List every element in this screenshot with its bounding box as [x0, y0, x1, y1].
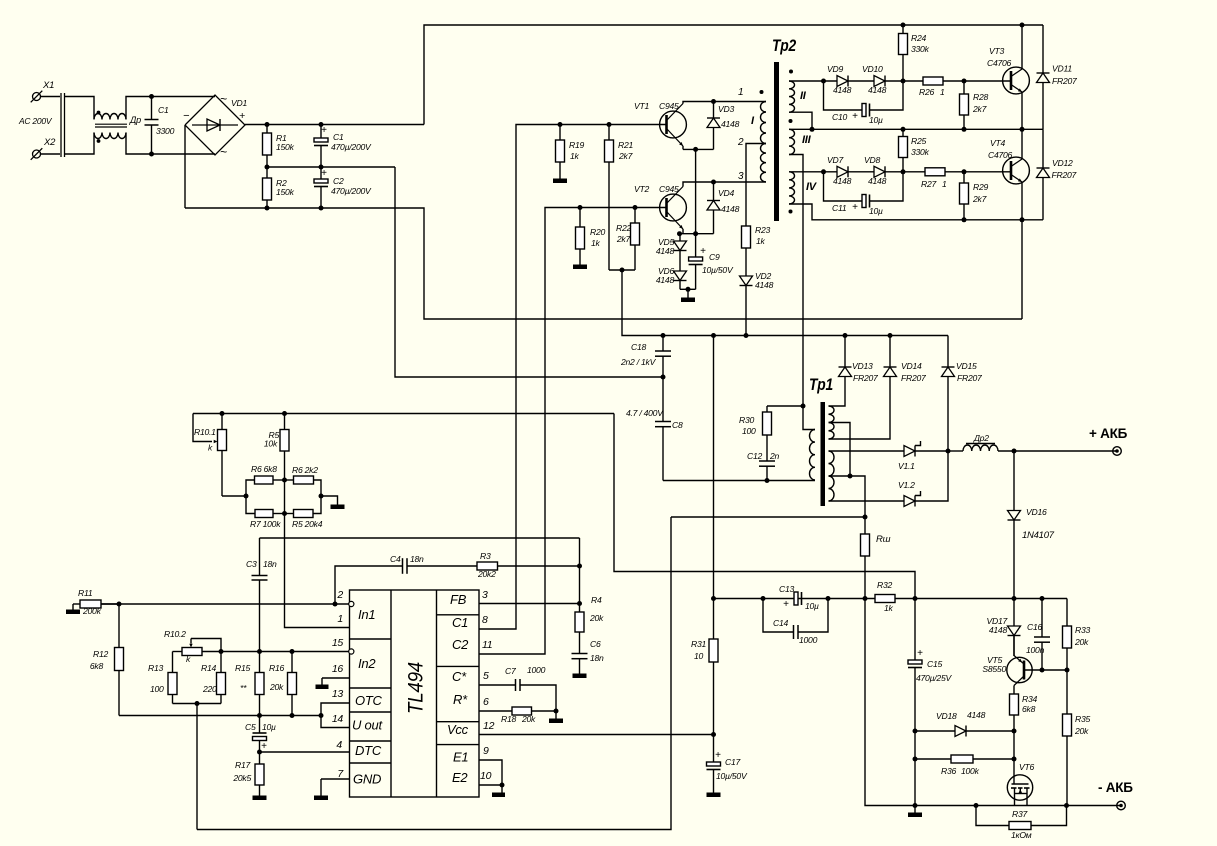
wire divider right to ground — [321, 496, 338, 505]
resistor R6 6k8 — [246, 464, 285, 496]
ground E1 E2 — [492, 793, 505, 798]
wire FB node chain — [577, 538, 582, 606]
svg-text:FB: FB — [450, 592, 467, 607]
svg-text:20k5: 20k5 — [232, 773, 251, 783]
wire +310V loop to top rail — [424, 23, 1043, 125]
svg-text:TL494: TL494 — [404, 662, 428, 714]
svg-text:20k: 20k — [1074, 637, 1089, 647]
svg-text:470µ/200V: 470µ/200V — [331, 186, 372, 196]
resistor R24 330k — [899, 25, 930, 81]
svg-text:FR207: FR207 — [957, 373, 983, 383]
resistor R35 20k — [1063, 670, 1091, 806]
svg-text:VD11: VD11 — [1052, 64, 1072, 74]
svg-text:15: 15 — [332, 637, 344, 649]
svg-text:20k: 20k — [589, 613, 604, 623]
svg-text:100: 100 — [150, 684, 164, 694]
svg-text:2k7: 2k7 — [972, 104, 988, 114]
svg-text:R14: R14 — [201, 663, 216, 673]
svg-text:R*: R* — [453, 692, 468, 707]
svg-text:Др: Др — [129, 115, 141, 125]
capacitor C4 18n — [335, 554, 477, 604]
diode VD6 4148 — [656, 266, 687, 289]
wire VT5 base — [1024, 668, 1070, 673]
wire VD10 to R26 — [885, 79, 923, 84]
ground pin16 — [316, 685, 329, 690]
svg-text:C11: C11 — [832, 203, 847, 213]
wire VT5 emitter — [1013, 636, 1015, 657]
wire bridge plus rail +310V — [245, 122, 424, 127]
wire pin3 FB line — [479, 603, 580, 605]
potentiometer R10.2 — [164, 629, 221, 664]
svg-text:V1.2: V1.2 — [898, 480, 915, 490]
svg-text:4: 4 — [336, 739, 342, 751]
svg-text:200k: 200k — [82, 606, 102, 616]
resistor R37 1kOm — [976, 806, 1067, 841]
wire R21 R22 junction to C18 rail — [609, 268, 948, 339]
svg-text:14: 14 — [332, 713, 344, 725]
svg-text:E1: E1 — [453, 750, 468, 765]
wire divider top rail — [193, 411, 614, 416]
svg-text:4148: 4148 — [833, 85, 852, 95]
svg-text:AC 200V: AC 200V — [18, 116, 53, 126]
svg-text:C5: C5 — [245, 722, 256, 732]
wire VT3 collector to top rail — [1021, 25, 1023, 69]
svg-text:C9: C9 — [709, 252, 720, 262]
svg-text:−: − — [183, 110, 190, 122]
svg-text:C2: C2 — [452, 637, 469, 652]
resistor R2 150k — [263, 167, 295, 208]
inductor Dr2 — [948, 433, 1117, 454]
wire choke to bridge top — [126, 94, 215, 119]
transistor VT2 C945 — [634, 184, 686, 229]
resistor Rsh shunt — [861, 517, 891, 599]
svg-text:330k: 330k — [911, 44, 930, 54]
wire Tp2 III bottom down to Tp1 — [789, 155, 803, 407]
wire upper secondary bottom to VD14 — [829, 377, 891, 439]
capacitor C13 10u — [779, 584, 819, 611]
svg-text:12: 12 — [483, 720, 495, 732]
wire pin7 GND to ground — [321, 779, 350, 796]
wire divider mid to pin1 — [285, 480, 350, 628]
svg-text:R15: R15 — [235, 663, 250, 673]
transformer Tp1 secondary upper — [829, 406, 835, 439]
svg-text:+: + — [321, 168, 327, 179]
svg-text:+: + — [239, 110, 245, 122]
diode VD5 4148 — [656, 234, 687, 271]
svg-text:1N4107: 1N4107 — [1022, 530, 1055, 541]
terminal X2 — [31, 137, 56, 160]
resistor R7 100k — [246, 496, 285, 529]
svg-text:R6 2k2: R6 2k2 — [292, 465, 318, 475]
wire VT2 emitter rail — [677, 229, 714, 236]
svg-text:R35: R35 — [1075, 714, 1090, 724]
resistor R32 1k — [875, 580, 895, 613]
wire feedback tap — [260, 537, 580, 539]
svg-text:4148: 4148 — [721, 204, 740, 214]
diode VD12 FR207 — [1037, 129, 1078, 220]
wire mid rail C1-C2 junction — [265, 165, 396, 170]
wire VT4 emitter to rail and return — [1021, 182, 1023, 319]
resistor R13 100 — [148, 652, 177, 704]
wire VT1 emitter rail — [683, 146, 714, 234]
resistor R30 100 — [739, 404, 806, 462]
svg-text:1k: 1k — [884, 603, 894, 613]
svg-text:4148: 4148 — [868, 85, 887, 95]
ground pin7 — [314, 796, 328, 801]
svg-text:Rш: Rш — [876, 534, 891, 545]
terminal +AKB — [1089, 426, 1128, 455]
transistor VT4 C4706 — [988, 138, 1029, 184]
svg-text:R20: R20 — [590, 227, 605, 237]
svg-text:+: + — [783, 599, 789, 610]
svg-text:20k: 20k — [269, 682, 284, 692]
wire Tp2 IV bottom rail — [789, 204, 1043, 222]
ground R19 — [553, 179, 567, 184]
svg-text:U out: U out — [352, 718, 383, 733]
svg-text:S8550: S8550 — [982, 664, 1006, 674]
svg-text:3300: 3300 — [156, 126, 175, 136]
svg-text:C14: C14 — [773, 618, 788, 628]
svg-text:10µ: 10µ — [869, 115, 883, 125]
svg-text:R34: R34 — [1022, 694, 1037, 704]
diode VD4 4148 — [707, 182, 740, 234]
wire Vcc pin12 rail — [479, 732, 716, 737]
wire VT1 collector to Tp2 pin1 — [683, 99, 766, 104]
wire filter to choke top — [65, 97, 95, 120]
resistor R21 2k7 — [605, 125, 634, 271]
wire VD9 to VD10 — [848, 80, 874, 82]
resistor R20 1k — [576, 208, 606, 265]
svg-text:VT2: VT2 — [634, 184, 649, 194]
transistor VT6 mosfet — [1007, 731, 1034, 806]
diode VD18 4148 — [915, 710, 1017, 737]
wire pin15 In2+ line — [202, 649, 349, 654]
svg-text:R29: R29 — [973, 182, 988, 192]
capacitor C11 10u bypass loop — [824, 172, 904, 216]
potentiometer R10.1 — [193, 414, 227, 497]
svg-text:+: + — [261, 741, 267, 752]
wire lower secondary bottom to V1.2 — [829, 500, 905, 502]
svg-text:C1: C1 — [158, 105, 169, 115]
svg-text:X1: X1 — [42, 80, 54, 91]
svg-text:VT4: VT4 — [990, 138, 1005, 148]
svg-text:C4: C4 — [390, 554, 401, 564]
resistor R5 10k — [264, 414, 289, 481]
wire pin2 In1+ line — [101, 602, 349, 607]
svg-text:2: 2 — [737, 137, 744, 148]
capacitor C14 1000 — [763, 599, 828, 646]
wire mid rail down to C18 bottom — [395, 167, 663, 377]
wire VT3 emitter to rail — [1021, 92, 1023, 129]
svg-text:VD16: VD16 — [1026, 507, 1047, 517]
wire upper secondary mid tap — [829, 423, 851, 477]
ground R11 — [66, 610, 80, 615]
resistor R31 10 — [691, 599, 718, 735]
svg-text:~: ~ — [220, 145, 227, 159]
resistor R1 150k — [263, 125, 295, 168]
svg-text:R25: R25 — [911, 136, 926, 146]
node divider mid — [282, 478, 324, 517]
transformer Tp2 winding III — [789, 119, 812, 155]
wire V1.2 up to output node — [915, 451, 948, 501]
wire Tp2 II top to VD9 — [789, 79, 837, 84]
svg-text:+: + — [852, 111, 858, 122]
svg-text:FR207: FR207 — [901, 373, 927, 383]
svg-text:OTC: OTC — [355, 693, 383, 708]
wire Tp2 II bottom to rail — [789, 112, 812, 129]
wire VT2 collector to Tp2 pin3 — [683, 180, 766, 187]
svg-text:R32: R32 — [877, 580, 892, 590]
wire upper secondary top to VD13 — [829, 377, 846, 406]
diode VD17 4148 — [987, 599, 1021, 657]
svg-text:- АКБ: - АКБ — [1098, 780, 1133, 795]
wire bottom rail to driver return — [185, 206, 1022, 320]
ground C7 R18 — [549, 711, 563, 723]
svg-text:~: ~ — [220, 92, 227, 106]
ground C17 — [707, 793, 721, 798]
svg-text:R26: R26 — [919, 87, 934, 97]
transformer Tp2 winding II — [789, 70, 807, 113]
wire center tap to shunt — [829, 474, 866, 518]
svg-text:3: 3 — [482, 589, 488, 601]
svg-text:+: + — [700, 246, 706, 257]
svg-text:III: III — [802, 134, 812, 146]
wire pins13 14 tie — [321, 703, 350, 728]
wire center tap rail — [197, 515, 868, 830]
svg-text:1k: 1k — [570, 151, 580, 161]
transistor VT3 C4706 — [987, 46, 1029, 94]
resistor R16 20k — [269, 652, 297, 716]
svg-text:R16: R16 — [269, 663, 284, 673]
svg-text:R36: R36 — [941, 766, 956, 776]
svg-text:10: 10 — [480, 770, 492, 782]
diode VD15 FR207 — [942, 336, 984, 452]
svg-text:VT1: VT1 — [634, 101, 649, 111]
svg-text:VT6: VT6 — [1019, 762, 1034, 772]
svg-text:5: 5 — [483, 670, 489, 682]
transformer Tp1 secondary lower — [829, 451, 835, 501]
wire C8 bottom rail to Tp1 primary — [663, 478, 815, 483]
resistor R33 20k — [1063, 599, 1091, 671]
resistor R8 20k4 — [285, 496, 323, 529]
svg-text:C7: C7 — [505, 666, 517, 676]
capacitor C18 2n2/1kV — [620, 336, 671, 380]
svg-text:C4706: C4706 — [987, 58, 1012, 68]
transformer Tp2 winding IV — [789, 172, 818, 214]
svg-text:Др2: Др2 — [973, 433, 989, 443]
svg-text:100: 100 — [742, 426, 756, 436]
svg-text:R5 20k4: R5 20k4 — [292, 519, 323, 529]
svg-text:10µ/50V: 10µ/50V — [716, 771, 748, 781]
svg-text:C6: C6 — [590, 639, 601, 649]
resistor R36 100k — [915, 755, 1017, 776]
diode VD11 FR207 — [1037, 25, 1079, 129]
thyristor V1.2 — [898, 480, 921, 507]
svg-text:R11: R11 — [78, 588, 93, 598]
wire R10.1 bottom to divider left — [222, 494, 249, 499]
capacitor C5 10u — [245, 716, 276, 753]
svg-text:C3: C3 — [246, 559, 257, 569]
svg-text:C13: C13 — [779, 584, 794, 594]
svg-text:4148: 4148 — [656, 246, 675, 256]
svg-text:1: 1 — [940, 87, 945, 97]
svg-text:18n: 18n — [590, 653, 604, 663]
capacitor C6 18n — [572, 639, 605, 674]
svg-text:C1: C1 — [452, 615, 468, 630]
svg-text:R21: R21 — [618, 140, 633, 150]
svg-text:2: 2 — [336, 589, 343, 601]
svg-text:R27: R27 — [921, 179, 937, 189]
svg-text:VD8: VD8 — [864, 155, 880, 165]
wire Tp2 III rail — [789, 127, 1043, 132]
wire VT5 collector to R34 — [1013, 686, 1015, 695]
svg-text:10µ: 10µ — [262, 722, 276, 732]
terminal -AKB — [1098, 780, 1133, 810]
svg-text:18n: 18n — [263, 559, 277, 569]
IC TL494 pin numbers — [332, 589, 495, 782]
resistor R12 6k8 — [90, 604, 124, 716]
transistor VT5 S8550 — [982, 655, 1032, 686]
svg-text:100k: 100k — [961, 766, 980, 776]
svg-text:2k7: 2k7 — [972, 194, 988, 204]
svg-text:2n: 2n — [769, 451, 780, 461]
svg-text:1: 1 — [738, 87, 743, 98]
svg-text:16: 16 — [332, 663, 344, 675]
svg-text:3: 3 — [738, 171, 744, 182]
transformer Tp2 winding I primary — [737, 87, 766, 182]
svg-text:FR207: FR207 — [1052, 170, 1078, 180]
svg-text:VD7: VD7 — [827, 155, 844, 165]
svg-text:4148: 4148 — [989, 625, 1008, 635]
capacitor C1 470u/200V — [314, 125, 372, 168]
svg-text:10µ/50V: 10µ/50V — [702, 265, 734, 275]
resistor R29 2k7 — [960, 172, 989, 220]
svg-text:10µ: 10µ — [869, 206, 883, 216]
wire VD8 to R27 — [885, 169, 925, 174]
svg-text:20k: 20k — [521, 714, 536, 724]
svg-text:VD4: VD4 — [718, 188, 734, 198]
svg-text:R23: R23 — [755, 225, 770, 235]
capacitor C17 10u/50V — [707, 735, 748, 793]
bridge rectifier VD1 — [183, 92, 247, 159]
svg-text:4148: 4148 — [833, 176, 852, 186]
wire R31 feed vertical — [713, 336, 715, 599]
wire R12 to pins 13 14 rail — [119, 713, 324, 718]
resistor R6a 2k2 — [285, 465, 322, 496]
capacitor C7 1000 — [479, 665, 556, 711]
wire VD7 to VD8 — [848, 171, 874, 173]
resistor R34 6k8 — [1010, 694, 1038, 731]
svg-text:R28: R28 — [973, 92, 988, 102]
svg-text:R37: R37 — [1012, 809, 1028, 819]
svg-text:150k: 150k — [276, 142, 295, 152]
svg-text:In1: In1 — [358, 607, 375, 622]
svg-text:C8: C8 — [672, 420, 683, 430]
svg-text:C18: C18 — [631, 342, 646, 352]
pin15 bubble — [349, 649, 354, 654]
svg-text:8: 8 — [482, 614, 488, 626]
resistor R11 200k — [73, 588, 119, 616]
svg-text:6k8: 6k8 — [1022, 704, 1036, 714]
svg-text:18n: 18n — [410, 554, 424, 564]
svg-text:R12: R12 — [93, 649, 108, 659]
svg-text:+: + — [917, 648, 923, 659]
svg-text:Vcc: Vcc — [447, 722, 469, 737]
ground divider — [331, 505, 345, 510]
svg-text:R7 100k: R7 100k — [250, 519, 281, 529]
svg-text:2n2 / 1kV: 2n2 / 1kV — [620, 357, 657, 367]
capacitor C1 3300 input film — [145, 97, 175, 155]
choke Dr common-mode — [94, 111, 141, 143]
svg-text:+: + — [852, 202, 858, 213]
svg-text:10: 10 — [694, 651, 704, 661]
capacitor C2 470u/200V — [314, 167, 372, 208]
wire V1.1 to output node — [915, 449, 951, 454]
diode VD9 4148 — [827, 64, 852, 95]
diode VD10 4148 — [862, 64, 887, 95]
wire X1 to line filter — [41, 96, 61, 98]
svg-text:R10.1: R10.1 — [194, 427, 216, 437]
svg-text:+: + — [715, 750, 721, 761]
capacitor C12 2n — [747, 451, 780, 481]
svg-text:6: 6 — [483, 696, 489, 708]
svg-text:FR207: FR207 — [1052, 76, 1078, 86]
svg-text:C16: C16 — [1027, 622, 1042, 632]
diode VD2 4148 — [740, 271, 774, 336]
wire lower secondary top to V1.1 — [829, 450, 905, 452]
resistor R19 1k — [556, 125, 585, 179]
diode VD16 1N4107 — [1008, 451, 1055, 599]
wire R13 R14 bottom to gnd rail — [173, 701, 222, 830]
svg-text:9: 9 — [483, 745, 489, 757]
svg-text:330k: 330k — [911, 147, 930, 157]
svg-text:R4: R4 — [591, 595, 602, 605]
svg-text:1000: 1000 — [527, 665, 546, 675]
svg-text:C17: C17 — [725, 757, 741, 767]
pin2 bubble — [349, 601, 354, 606]
svg-text:1кОм: 1кОм — [1011, 830, 1032, 840]
svg-text:FR207: FR207 — [853, 373, 879, 383]
resistor R15 ** — [235, 652, 264, 716]
svg-text:4148: 4148 — [656, 275, 675, 285]
capacitor C15 470u/25V — [908, 599, 952, 806]
svg-text:6k8: 6k8 — [90, 661, 104, 671]
wire pin4 DTC line — [257, 750, 350, 755]
svg-text:Tp1: Tp1 — [809, 375, 833, 394]
svg-text:X2: X2 — [43, 137, 56, 148]
svg-text:R33: R33 — [1075, 625, 1090, 635]
svg-text:R22: R22 — [616, 223, 631, 233]
svg-text:C945: C945 — [659, 184, 679, 194]
svg-text:VD10: VD10 — [862, 64, 883, 74]
capacitor C8 4.7/400V — [626, 377, 683, 481]
svg-text:2k7: 2k7 — [616, 234, 632, 244]
wire X2 to line filter — [41, 153, 61, 155]
wire shunt to bottom rail — [865, 599, 1121, 809]
svg-text:C*: C* — [452, 669, 467, 684]
diode VD14 FR207 — [884, 336, 928, 384]
wire filter to choke bottom — [65, 133, 95, 155]
svg-text:100n: 100n — [1026, 645, 1045, 655]
capacitor C3 18n — [246, 538, 277, 652]
svg-text:4148: 4148 — [721, 119, 740, 129]
wire VT1 base rail to pin8 — [479, 122, 667, 629]
svg-text:VD9: VD9 — [827, 64, 843, 74]
svg-text:GND: GND — [353, 772, 381, 787]
resistor R17 20k5 — [232, 752, 264, 796]
resistor R27 1 — [921, 168, 1011, 189]
svg-text:C2: C2 — [333, 176, 344, 186]
